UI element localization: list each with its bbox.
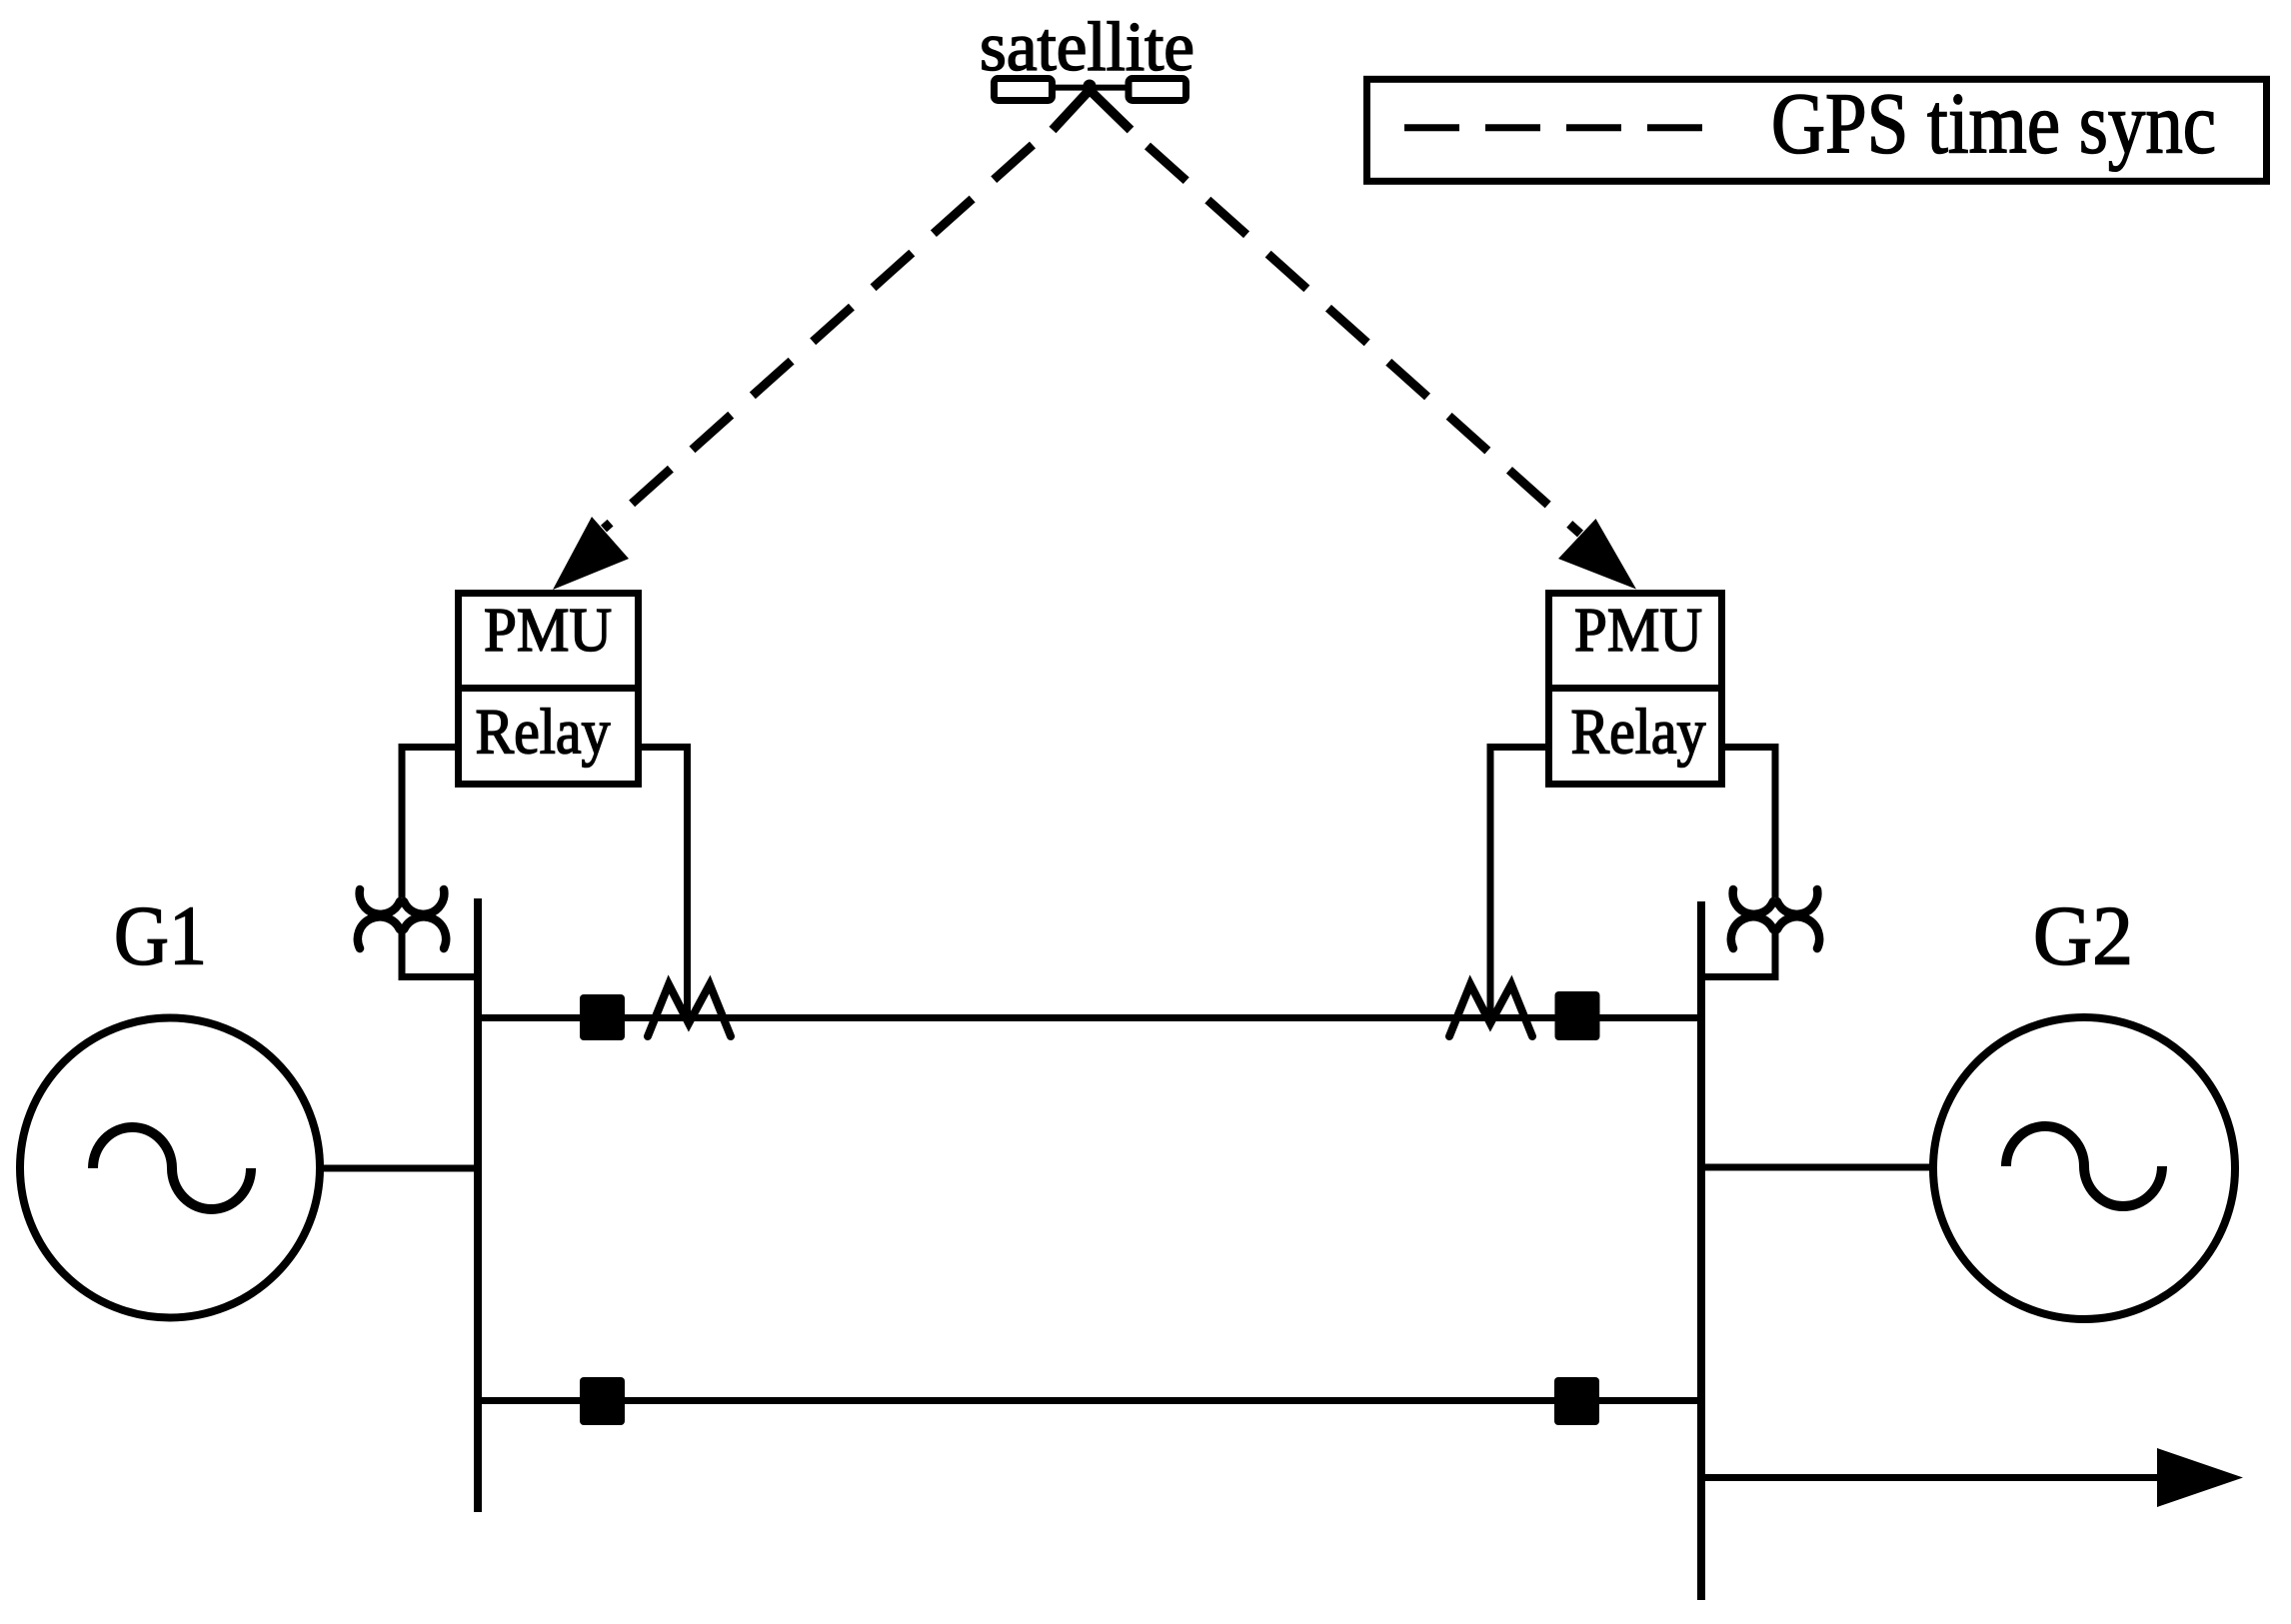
wire bus 2 to G2 [1701,1164,1934,1171]
wire right PMU to VT [1725,748,1775,898]
breaker line2 left [580,1377,625,1425]
G2 sine wave [2006,1126,2162,1206]
arrowhead at left PMU [553,517,629,590]
svg-text:satellite: satellite [980,9,1194,86]
load arrowhead [2157,1448,2243,1507]
legend dashed line sample [1404,124,1702,131]
left VT wire to bus 1 [402,927,476,977]
right PMU/Relay box U2 [1545,594,1725,785]
wire G1 to bus 1 [321,1165,478,1172]
left PMU/Relay box U1 [455,594,642,785]
svg-text:G2: G2 [2033,889,2133,983]
generator G1 circle [20,1018,320,1318]
svg-text:Relay: Relay [1571,697,1706,769]
fault zigzag left [648,984,731,1036]
satellite antenna V [1053,90,1131,130]
GPS dashed link to right PMU [1147,146,1580,534]
legend box [1367,79,2267,181]
GPS dashed link to left PMU [604,145,1033,529]
transmission line 1 [478,1014,1701,1021]
breaker line1 left [580,994,625,1040]
bus 2 (right busbar) [1697,901,1705,1600]
G1 sine wave [93,1127,251,1209]
svg-text:Relay: Relay [476,697,611,769]
wire left PMU to line 1 tap [642,748,688,1022]
svg-text:PMU: PMU [484,597,612,665]
svg-text:PMU: PMU [1574,597,1702,665]
breaker line2 right [1554,1377,1599,1425]
satellite crossbar [1056,85,1126,91]
load feeder line [1701,1474,2169,1481]
left VT (instrument transformer) arcs [358,889,446,948]
right VT (instrument transformer) arcs [1731,889,1819,948]
arrowhead at right PMU [1558,519,1636,590]
wire right PMU to line 1 tap [1490,748,1545,1022]
right VT wire to bus 2 [1703,927,1775,977]
satellite body dot [1084,80,1097,93]
breaker line1 right [1555,991,1600,1040]
transmission line 2 [478,1397,1701,1404]
svg-text:G1: G1 [114,889,207,983]
generator G2 circle [1933,1017,2235,1319]
satellite left solar panel [995,79,1053,101]
fault zigzag right [1449,984,1532,1036]
wire left PMU to VT [402,748,456,898]
svg-text:GPS time sync: GPS time sync [1771,75,2216,172]
satellite right solar panel [1129,79,1186,101]
bus 1 (left busbar) [474,898,482,1512]
